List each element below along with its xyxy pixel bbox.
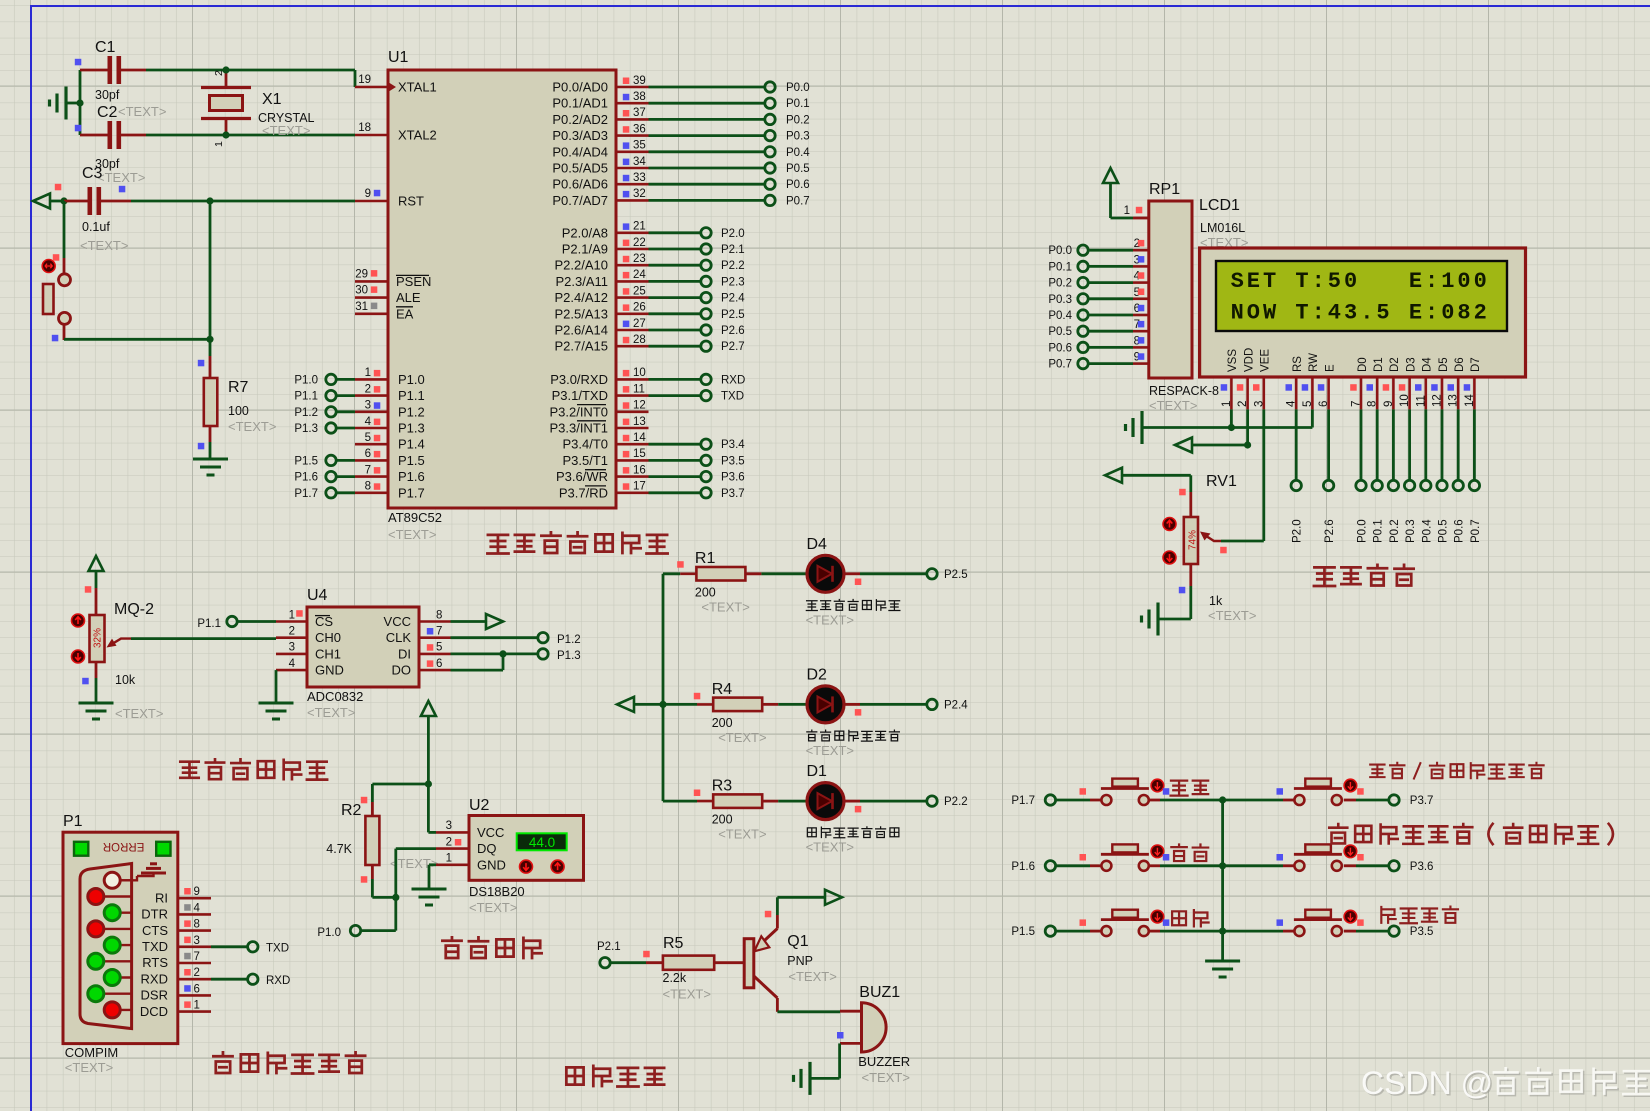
terminal RXD	[248, 974, 258, 984]
power terminal RV1	[1105, 468, 1122, 483]
svg-text:<TEXT>: <TEXT>	[788, 969, 836, 984]
svg-text:P0.3: P0.3	[1048, 294, 1072, 306]
marker square D2	[855, 709, 862, 716]
marker square button left	[1080, 788, 1087, 795]
svg-text:U2: U2	[469, 797, 490, 814]
resistor R4	[713, 698, 762, 712]
svg-text:P0.5/AD5: P0.5/AD5	[552, 161, 608, 176]
svg-text:RS: RS	[1292, 356, 1304, 372]
svg-text:CH0: CH0	[315, 630, 341, 645]
capacitor C2	[110, 121, 119, 149]
svg-text:ALE: ALE	[396, 290, 421, 305]
terminal P0.2	[765, 114, 775, 124]
ground under U4	[259, 703, 294, 719]
marker square button left	[1080, 854, 1087, 861]
terminal P0.1	[765, 98, 775, 108]
terminal RST input arrow	[33, 194, 50, 209]
wire P0.5 to RP1	[1089, 330, 1134, 333]
svg-text:P2.5/A13: P2.5/A13	[555, 306, 609, 321]
wire DQ to junction	[396, 847, 436, 850]
svg-text:10: 10	[1399, 394, 1411, 407]
svg-text:D0: D0	[1357, 357, 1369, 372]
R3 left pin	[697, 800, 713, 803]
svg-text:8: 8	[436, 609, 442, 621]
resistor pack RP1 body	[1149, 201, 1192, 378]
svg-text:E: E	[1324, 364, 1336, 372]
wire P0.2 to RP1	[1089, 281, 1134, 284]
marker square C1	[75, 59, 82, 66]
marker square right button left	[1277, 788, 1284, 795]
svg-text:17: 17	[633, 481, 646, 493]
svg-text:<TEXT>: <TEXT>	[388, 527, 436, 542]
svg-text:13: 13	[633, 416, 646, 428]
junction RST to R7 branch	[206, 197, 213, 204]
U4 pin7 square	[427, 628, 434, 635]
wire U1 to P2.0	[649, 231, 701, 234]
wire P1.5 to U1	[337, 459, 356, 462]
wire U1 to P2.3	[649, 280, 701, 283]
wire C1-C2 left vertical	[79, 70, 82, 135]
power terminal LED rail	[617, 697, 634, 712]
svg-text:P3.1/TXD: P3.1/TXD	[552, 388, 608, 403]
wire C2 to XTAL2	[146, 134, 355, 137]
svg-text:P0.6/AD6: P0.6/AD6	[552, 177, 608, 192]
button pin stub	[1090, 864, 1101, 867]
svg-text:P0.4: P0.4	[1048, 310, 1072, 322]
D4 cathode pin	[845, 572, 861, 575]
svg-text:P1.3: P1.3	[557, 650, 581, 662]
terminal P2.5	[927, 569, 937, 579]
svg-text:VCC: VCC	[477, 825, 504, 840]
svg-text:18: 18	[358, 122, 371, 134]
svg-text:RI: RI	[155, 890, 168, 905]
MQ-2 top pin	[95, 588, 98, 615]
svg-text:14: 14	[633, 432, 646, 444]
marker square button right	[1163, 919, 1170, 926]
svg-text:8: 8	[1367, 401, 1379, 407]
terminal P0.3	[765, 130, 775, 140]
terminal TXD	[701, 390, 711, 400]
svg-text:4: 4	[365, 416, 372, 428]
ADC U4 ADC0832 body	[307, 607, 419, 687]
svg-text:P3.6: P3.6	[721, 472, 745, 484]
wire U1 to P2.2	[649, 264, 701, 267]
svg-text:30: 30	[355, 285, 368, 297]
svg-text:COMPIM: COMPIM	[65, 1045, 118, 1060]
terminal P0.7	[765, 195, 775, 205]
terminal P2.1	[701, 244, 711, 254]
wire D7 down	[1473, 409, 1476, 480]
wire P1.3 to U1	[337, 427, 356, 430]
ground under MQ-2	[79, 703, 114, 719]
terminal P0.3 LCD	[1404, 480, 1414, 490]
button pin stub	[1149, 930, 1160, 933]
junction button bus	[1219, 796, 1226, 803]
P1 ERROR leds	[74, 842, 88, 856]
svg-text:P1.1: P1.1	[294, 391, 318, 403]
svg-text:VEE: VEE	[1260, 349, 1272, 372]
svg-text:P3.7: P3.7	[721, 488, 745, 500]
svg-text:21: 21	[633, 221, 646, 233]
svg-text:P3.4/T0: P3.4/T0	[562, 437, 608, 452]
push button 加键	[1101, 795, 1111, 805]
svg-text:C1: C1	[95, 39, 116, 56]
caption 烟雾报警信号灯	[807, 827, 899, 838]
marker square Q1 emitter	[765, 911, 772, 918]
svg-text:DSR: DSR	[141, 988, 168, 1003]
svg-text:<TEXT>: <TEXT>	[663, 987, 711, 1002]
terminal P1.1	[227, 616, 237, 626]
terminal P2.7	[701, 341, 711, 351]
wire to bar ground	[810, 1077, 840, 1080]
R2 bottom pin	[371, 865, 374, 879]
terminal P0.4 LCD	[1421, 480, 1431, 490]
marker square C2	[75, 125, 82, 132]
wire U1 to P3.7	[649, 491, 701, 494]
svg-text:P2.0: P2.0	[1292, 519, 1304, 543]
svg-text:<TEXT>: <TEXT>	[806, 612, 854, 627]
svg-text:P0.2: P0.2	[1389, 519, 1401, 543]
svg-text:P2.3/A11: P2.3/A11	[555, 274, 608, 289]
svg-text:24: 24	[633, 269, 646, 281]
terminal P3.5	[1389, 926, 1399, 936]
crystal X1	[201, 88, 251, 119]
svg-text:DO: DO	[392, 663, 412, 678]
LED D1	[807, 783, 844, 820]
terminal P1.0	[326, 374, 336, 384]
U1 right pin stubs	[616, 87, 649, 493]
svg-text:C3: C3	[82, 165, 103, 182]
power terminal above U2	[421, 701, 436, 716]
wire RST vertical to R7	[209, 201, 212, 339]
svg-text:12: 12	[633, 400, 646, 412]
U2 adjust down icon	[520, 860, 533, 873]
svg-text:P2.1/A9: P2.1/A9	[562, 242, 608, 257]
wire button to bus	[1160, 864, 1223, 867]
wire RV1 to ground	[1189, 586, 1192, 619]
svg-text:P1.7: P1.7	[294, 488, 318, 500]
caption 入侵报警指示灯	[806, 600, 900, 611]
R5 right pin / base wire	[714, 961, 745, 964]
wire U1 to P3.5	[649, 459, 701, 462]
svg-text:P0.2: P0.2	[786, 114, 810, 126]
wire collector to buzzer	[777, 1010, 840, 1013]
wire C2 left pin	[80, 134, 108, 137]
P1 DB9 shell	[80, 864, 132, 1029]
terminal P0.0 RP1	[1078, 245, 1088, 255]
svg-text:4: 4	[289, 658, 296, 670]
caption 加键	[1171, 781, 1209, 796]
svg-text:X1: X1	[262, 91, 282, 108]
wire to R2 top	[372, 783, 428, 786]
serial port P1 COMPIM body	[63, 832, 178, 1043]
terminal P1.1	[326, 390, 336, 400]
wire U4 DO	[451, 669, 504, 672]
wire R2 bottom	[371, 879, 374, 897]
svg-text:11: 11	[633, 383, 645, 395]
svg-text:CLK: CLK	[386, 630, 412, 645]
wire to RP1 pin1 stub	[1111, 217, 1134, 220]
terminal P1.5	[326, 455, 336, 465]
svg-text:P0.1: P0.1	[1048, 261, 1072, 273]
LCD LCD1 body	[1200, 248, 1526, 377]
wire U4 DI to P1.3	[451, 653, 538, 656]
MQ-2 adjust down icon	[72, 650, 85, 663]
svg-text:DS18B20: DS18B20	[469, 884, 525, 899]
svg-text:28: 28	[633, 334, 646, 346]
wire arrow to C3	[50, 200, 64, 203]
wire VDD to power	[1192, 444, 1247, 447]
junction RST branch	[60, 197, 67, 204]
U2 pin2 square	[455, 839, 462, 846]
wire P1.7 to U1	[337, 491, 356, 494]
svg-text:P1.1: P1.1	[197, 618, 221, 630]
button pin stub	[1149, 799, 1160, 802]
svg-text:P0.5: P0.5	[1438, 519, 1450, 543]
MQ-2 adjust up icon	[72, 614, 85, 627]
marker square R2 top	[361, 797, 368, 804]
svg-text:2: 2	[1237, 401, 1249, 407]
svg-text:74%: 74%	[1187, 530, 1198, 550]
wire U1 to P0.5	[649, 167, 765, 170]
terminal P1.5	[1045, 926, 1055, 936]
svg-text:DQ: DQ	[477, 841, 497, 856]
svg-text:RXD: RXD	[141, 971, 168, 986]
RP1 pin1 square	[1136, 207, 1143, 214]
svg-text:TXD: TXD	[266, 943, 289, 955]
svg-text:RST: RST	[398, 194, 424, 209]
wire U1 to P3.4	[649, 443, 701, 446]
resistor R2	[365, 816, 379, 865]
marker square button bottom	[52, 335, 59, 342]
svg-text:10k: 10k	[115, 673, 136, 687]
svg-text:P1.1: P1.1	[398, 388, 425, 403]
wire R4 to D2	[778, 703, 806, 706]
wire U4 CLK to P1.2	[451, 636, 538, 639]
svg-text:P0.1: P0.1	[1373, 519, 1385, 543]
marker square BUZ1	[837, 1032, 844, 1039]
U1 pin labels right	[549, 80, 608, 501]
capacitor C3	[90, 187, 99, 215]
svg-text:2: 2	[289, 626, 295, 638]
svg-text:P0.6: P0.6	[786, 179, 810, 191]
R7 top pin	[209, 356, 212, 378]
marker square R7 top	[198, 360, 205, 367]
wire P1 TXD out	[211, 945, 248, 948]
svg-text:Q1: Q1	[787, 933, 808, 950]
Q1 emitter pin	[776, 915, 779, 929]
wire P0.3 to RP1	[1089, 297, 1134, 300]
svg-text:P2.0/A8: P2.0/A8	[562, 225, 608, 240]
marker square button left	[1080, 919, 1087, 926]
svg-text:26: 26	[633, 302, 646, 314]
terminal P1.6	[326, 471, 336, 481]
wire VSS down	[1230, 409, 1233, 427]
wire arrow to LED bus	[634, 703, 663, 706]
R4 left pin	[697, 703, 713, 706]
svg-text:39: 39	[633, 75, 646, 87]
junction crystal bottom	[222, 131, 229, 138]
terminal P1.7	[326, 488, 336, 498]
terminal P0.2 RP1	[1078, 277, 1088, 287]
power terminal VDD	[1175, 438, 1192, 453]
svg-text:<TEXT>: <TEXT>	[806, 840, 854, 855]
svg-text:<TEXT>: <TEXT>	[701, 599, 749, 614]
svg-text:P0.5: P0.5	[786, 163, 810, 175]
R5 left pin	[646, 961, 663, 964]
wire bus to R1	[663, 572, 680, 575]
svg-text:PNP: PNP	[787, 954, 813, 968]
wire P1.7 to button	[1056, 799, 1090, 802]
button pin stub	[1090, 799, 1101, 802]
P1 pin labels	[140, 890, 169, 1018]
marker square D1	[855, 806, 862, 813]
svg-text:P0.1: P0.1	[786, 98, 810, 110]
svg-text:RXD: RXD	[266, 975, 290, 987]
junction button bus	[1219, 928, 1226, 935]
terminal P3.4	[701, 439, 711, 449]
MQ-2 bottom pin	[95, 662, 98, 678]
junction button/R7	[206, 336, 213, 343]
terminal P1.7	[1045, 795, 1055, 805]
U2 adjust up icon	[551, 860, 564, 873]
U4 pin numbers	[289, 609, 443, 670]
R1 right pin	[745, 572, 761, 575]
svg-text:P1.4: P1.4	[398, 437, 425, 452]
U2 display 44.0	[517, 833, 567, 850]
svg-text:31: 31	[355, 301, 368, 313]
terminal P0.1 LCD	[1372, 480, 1382, 490]
D2 cathode pin	[845, 703, 861, 706]
svg-text:35: 35	[633, 140, 646, 152]
wire to ground stem	[66, 102, 80, 105]
ground under U2	[412, 889, 447, 905]
terminal P0.6 LCD	[1453, 480, 1463, 490]
wire U4 VCC to power	[451, 620, 488, 623]
push button right	[1294, 795, 1304, 805]
svg-text:P3.7/RD: P3.7/RD	[559, 485, 608, 500]
svg-text:P3.2/INT0: P3.2/INT0	[549, 404, 608, 419]
wire P1.6 to U1	[337, 475, 356, 478]
terminal P3.6	[1389, 861, 1399, 871]
svg-text:AT89C52: AT89C52	[388, 510, 442, 525]
wire corner down to XTAL1	[354, 70, 357, 87]
svg-text:D4: D4	[807, 536, 828, 553]
wire to R7 top	[209, 339, 212, 356]
svg-text:P0.0: P0.0	[786, 82, 810, 94]
wire crystal top pin	[225, 70, 228, 87]
right button pin stub	[1344, 864, 1356, 867]
svg-text:U1: U1	[388, 49, 409, 66]
wire E down	[1327, 409, 1330, 480]
svg-text:32: 32	[633, 188, 646, 200]
terminal P3.5	[701, 455, 711, 465]
svg-text:RP1: RP1	[1149, 181, 1180, 198]
svg-text:32%: 32%	[93, 628, 104, 648]
U2 pin numbers	[446, 820, 452, 864]
marker square R7 bottom	[198, 443, 205, 450]
wire U1 to P0.0	[649, 86, 765, 89]
marker square right button left	[1277, 854, 1284, 861]
svg-text:P3.6/WR: P3.6/WR	[556, 469, 608, 484]
marker square RV1 bottom	[1179, 587, 1186, 594]
svg-text:P1.6: P1.6	[1011, 861, 1035, 873]
wire P1.1 to U4 CS	[238, 620, 277, 623]
caption 串口通信模块	[213, 1052, 365, 1073]
wire R2 to DQ net	[372, 896, 395, 899]
svg-text:<TEXT>: <TEXT>	[1149, 398, 1197, 413]
svg-text:5: 5	[365, 432, 371, 444]
temperature sensor U2 DS18B20 body	[469, 816, 584, 881]
wire U1 to P2.4	[649, 296, 701, 299]
terminal P2.4	[701, 292, 711, 302]
svg-text:P1.5: P1.5	[1011, 926, 1035, 938]
svg-text:R1: R1	[695, 550, 716, 567]
resistor R1	[696, 567, 745, 581]
wire P2.1 to R5	[611, 961, 647, 964]
svg-text:9: 9	[1383, 401, 1395, 407]
svg-text:11: 11	[1415, 395, 1427, 407]
marker square MQ-2 top	[85, 586, 92, 593]
watermark CSDN	[1363, 1067, 1650, 1103]
svg-text:<TEXT>: <TEXT>	[718, 730, 766, 745]
wire R1 to D4	[761, 572, 806, 575]
svg-text:P2.1: P2.1	[721, 244, 745, 256]
wire D2 to P2.4	[860, 703, 927, 706]
marker square button top	[53, 254, 60, 261]
svg-text:37: 37	[633, 107, 646, 119]
svg-text:P2.6/A14: P2.6/A14	[555, 323, 609, 338]
wire P1.5 to button	[1056, 930, 1090, 933]
caption 温度报警信号灯	[807, 730, 900, 741]
svg-text:P2.6: P2.6	[1324, 519, 1336, 543]
push button 减键	[1101, 926, 1111, 936]
ground under button bus	[1205, 961, 1240, 977]
R4 right pin	[762, 703, 778, 706]
power terminal RP1	[1103, 168, 1118, 183]
svg-text:P0.6: P0.6	[1048, 342, 1072, 354]
svg-text:19: 19	[358, 74, 371, 86]
RV1 top pin	[1189, 492, 1192, 517]
terminal P0.7 RP1	[1078, 358, 1088, 368]
terminal P2.5	[701, 309, 711, 319]
svg-text:P0.7: P0.7	[786, 195, 810, 207]
svg-text:XTAL1: XTAL1	[398, 80, 437, 95]
svg-text:1: 1	[446, 853, 452, 865]
wire RST to button	[63, 201, 66, 258]
wire C1 to XTAL1 horizontal	[146, 69, 355, 72]
U1 pin labels left	[396, 80, 437, 501]
wire button to P3.7	[1356, 799, 1389, 802]
svg-text:RESPACK-8: RESPACK-8	[1149, 384, 1219, 398]
wire buzzer to ground	[838, 1043, 841, 1078]
svg-text:<TEXT>: <TEXT>	[1208, 608, 1256, 623]
wire button to P3.5	[1356, 930, 1389, 933]
terminal P1.2	[326, 407, 336, 417]
svg-text:P2.1: P2.1	[597, 941, 621, 953]
svg-text:P0.2/AD2: P0.2/AD2	[552, 112, 608, 127]
svg-text:200: 200	[712, 716, 733, 730]
terminal P1.2	[538, 633, 548, 643]
terminal P0.4 RP1	[1078, 310, 1088, 320]
svg-text:6: 6	[436, 658, 442, 670]
svg-text:P0.6: P0.6	[1454, 519, 1466, 543]
junction VDD	[1244, 441, 1251, 448]
junction VSS ground	[1228, 424, 1235, 431]
svg-text:1: 1	[365, 367, 371, 379]
wire U4 GND down	[275, 670, 278, 702]
svg-text:P1.7: P1.7	[398, 485, 425, 500]
